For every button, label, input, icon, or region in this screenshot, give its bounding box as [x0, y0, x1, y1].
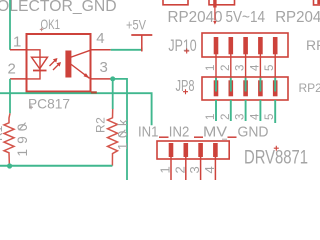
phototransistor bar	[65, 51, 71, 78]
wire junction to R2	[112, 79, 114, 109]
pin lines below DRV8871	[171, 157, 215, 180]
pin 3 line	[91, 78, 112, 80]
svg-text:2: 2	[220, 65, 232, 71]
wire pin2 down to R1	[9, 79, 11, 113]
origin cross JP8	[183, 89, 188, 94]
LED emission arrow 2	[53, 64, 59, 70]
svg-text:2: 2	[8, 61, 16, 78]
svg-text:RP20: RP20	[299, 81, 320, 95]
svg-text:IN2: IN2	[169, 124, 190, 141]
collector line	[70, 50, 91, 57]
pin 1 line	[10, 49, 27, 51]
pin numbers 1-4 (DRV8871)	[158, 166, 217, 173]
origin cross DRV8871	[274, 146, 279, 151]
svg-text:MV: MV	[203, 124, 227, 141]
pin 4 line	[91, 49, 111, 51]
svg-text:4: 4	[96, 30, 104, 47]
svg-text:4: 4	[202, 166, 217, 173]
LED conductor	[28, 50, 41, 79]
wire pin4 to +5V	[111, 49, 142, 51]
svg-text:3: 3	[235, 114, 247, 120]
svg-text:PC817: PC817	[28, 95, 70, 111]
LED cathode bar	[33, 70, 47, 72]
svg-text:4: 4	[249, 113, 261, 120]
origin cross OK1	[40, 28, 44, 32]
pin numbers 1-5 (JP10)	[205, 64, 276, 71]
resistor R1	[4, 113, 14, 166]
svg-text:2: 2	[220, 114, 232, 120]
connector DRV8871 pins	[169, 143, 218, 157]
junction node R1 rail	[7, 163, 12, 168]
svg-text:4: 4	[249, 64, 261, 71]
pin numbers 1-5 (JP8)	[205, 113, 276, 120]
opto-coupler OK1 box	[27, 34, 91, 92]
wire stubs (red) between labels	[159, 136, 237, 138]
svg-text:RP20: RP20	[306, 37, 320, 53]
wires into JP8 pins	[216, 78, 275, 92]
svg-text:5: 5	[264, 114, 276, 120]
svg-text:3: 3	[235, 65, 247, 71]
connector JP8 box	[202, 77, 288, 100]
wire junction right elbow down	[113, 79, 127, 180]
connector JP10 pins	[214, 37, 278, 54]
connector JP (top left, cut off)	[163, 0, 188, 5]
svg-text:RP204: RP204	[275, 9, 320, 26]
connector corner (top right, cut off)	[314, 0, 320, 5]
LED triangle	[32, 57, 48, 69]
svg-text:R1: R1	[0, 125, 5, 141]
connector DRV8871 box	[157, 141, 229, 159]
wire	[9, 0, 11, 50]
svg-text:1: 1	[205, 65, 217, 71]
svg-text:5: 5	[264, 65, 276, 71]
emitter line with arrow	[70, 64, 90, 79]
svg-text:+5V: +5V	[126, 17, 147, 33]
connector JP8 pins	[214, 80, 278, 96]
junction node pin 3	[110, 76, 115, 81]
svg-text:JP10: JP10	[168, 37, 196, 55]
svg-text:COLECTOR_GND: COLECTOR_GND	[0, 0, 117, 15]
svg-text:GND: GND	[238, 124, 269, 141]
LED emission arrow 1	[50, 60, 56, 66]
origin cross PC817	[29, 105, 33, 109]
pin 1 (top middle connector)	[213, 0, 216, 8]
origin cross JP10	[184, 49, 189, 54]
svg-text:3: 3	[100, 59, 108, 76]
svg-text:2: 2	[172, 166, 187, 173]
pin 2 line	[10, 78, 27, 80]
wire horizontal under OK1 to IN1	[0, 93, 152, 125]
wires below JP8	[216, 100, 275, 123]
svg-text:1: 1	[205, 114, 217, 120]
svg-text:5V~14: 5V~14	[226, 9, 266, 26]
svg-text:R2: R2	[94, 117, 108, 133]
resistor R2	[108, 109, 118, 166]
svg-text:3: 3	[187, 166, 202, 173]
svg-text:190: 190	[15, 118, 30, 156]
svg-text:1: 1	[158, 166, 173, 173]
svg-text:IN1: IN1	[138, 124, 159, 141]
connector JP (top middle, cut off)	[209, 0, 235, 5]
svg-text:OK1: OK1	[41, 16, 61, 32]
svg-text:1: 1	[13, 34, 21, 51]
pin lines JP10 to JP8	[216, 54, 275, 81]
connector JP10 box	[202, 33, 288, 57]
supply +5V symbol	[131, 34, 152, 36]
wire ground rail	[0, 165, 112, 167]
